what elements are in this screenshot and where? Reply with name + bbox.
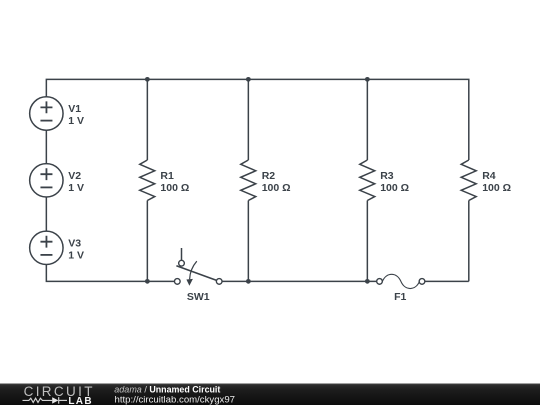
voltage source V3 <box>30 231 63 264</box>
label V3 value 1 V <box>68 237 84 261</box>
label R1 value 100 ohm <box>160 170 189 194</box>
label V2 value 1 V <box>68 170 84 194</box>
resistor R1 <box>140 160 155 201</box>
F1 right terminal <box>419 279 425 285</box>
wire top rail <box>46 79 468 160</box>
svg-text:adama / Unnamed Circuit: adama / Unnamed Circuit <box>114 385 220 395</box>
svg-text:100 Ω: 100 Ω <box>160 182 189 194</box>
wire V1-V2 <box>45 130 47 164</box>
svg-text:1 V: 1 V <box>68 182 84 194</box>
wire R2 bottom stub <box>247 201 249 282</box>
wire R3 bottom stub <box>366 201 368 282</box>
F1 element squiggle <box>382 274 419 288</box>
svg-text:1 V: 1 V <box>68 249 84 261</box>
fuse F1 <box>377 274 425 288</box>
wire R4 bottom stub <box>468 201 470 282</box>
resistor R3 <box>360 160 375 201</box>
node bottom junction at R3 <box>365 279 370 284</box>
SW1 left terminal <box>174 279 180 285</box>
SW1 upper throw terminal <box>179 260 185 266</box>
svg-text:100 Ω: 100 Ω <box>380 182 409 194</box>
label R3 value 100 ohm <box>380 170 409 194</box>
svg-text:R4: R4 <box>482 170 496 182</box>
voltage source V2 <box>30 164 63 197</box>
node top junction at R1 <box>145 77 150 82</box>
svg-text:F1: F1 <box>394 291 406 303</box>
wire bottom rail right <box>425 280 469 282</box>
node bottom junction at R1 <box>145 279 150 284</box>
SW1 right terminal <box>216 279 222 285</box>
footer bar <box>0 384 540 405</box>
svg-text:LAB: LAB <box>68 396 92 405</box>
svg-text:V2: V2 <box>68 170 81 182</box>
svg-text:V1: V1 <box>68 103 81 115</box>
wire bottom rail middle <box>222 280 377 282</box>
label R2 value 100 ohm <box>262 170 291 194</box>
svg-text:100 Ω: 100 Ω <box>482 182 511 194</box>
voltage source V1 <box>30 97 63 130</box>
wire R1 top stub <box>146 79 148 160</box>
switch SW1 <box>174 248 222 286</box>
svg-text:R3: R3 <box>380 170 394 182</box>
label R4 value 100 ohm <box>482 170 511 194</box>
svg-text:1 V: 1 V <box>68 115 84 127</box>
F1 left terminal <box>377 279 383 285</box>
wire V3 to bottom rail left <box>46 264 174 281</box>
svg-text:100 Ω: 100 Ω <box>262 182 291 194</box>
svg-text:R2: R2 <box>262 170 276 182</box>
resistor R2 <box>241 160 256 201</box>
svg-text:V3: V3 <box>68 237 81 249</box>
node bottom junction at R2 <box>246 279 251 284</box>
svg-text:http://circuitlab.com/ckygx97: http://circuitlab.com/ckygx97 <box>115 395 236 405</box>
node top junction at R3 <box>365 77 370 82</box>
label V1 value 1 V <box>68 103 84 127</box>
svg-text:R1: R1 <box>160 170 174 182</box>
svg-text:SW1: SW1 <box>187 291 210 303</box>
wire R1 bottom stub <box>146 201 148 282</box>
CircuitLab logo resistor-diode squiggle <box>23 397 68 404</box>
resistor R4 <box>461 160 476 201</box>
CircuitLab logo diode triangle <box>52 397 58 403</box>
wire V2-V3 <box>45 197 47 232</box>
node top junction at R2 <box>246 77 251 82</box>
wire R3 top stub <box>366 79 368 160</box>
SW1 lever <box>176 266 216 281</box>
wire SW1 upper throw stub <box>181 248 183 260</box>
wire R2 top stub <box>247 79 249 160</box>
SW1 arrowhead <box>186 279 193 286</box>
SW1 actuation arc <box>190 261 197 279</box>
